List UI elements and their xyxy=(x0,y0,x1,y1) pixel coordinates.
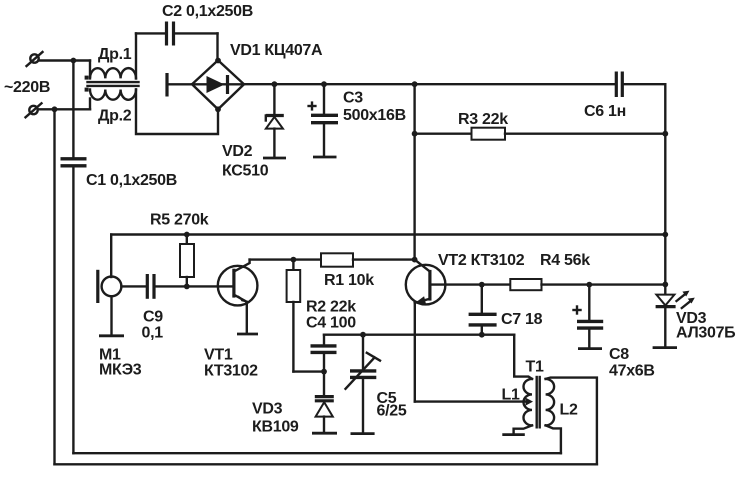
node rail VD2 xyxy=(272,81,278,87)
svg-text:C1 0,1x250В: C1 0,1x250В xyxy=(86,172,177,189)
varicap VD3 KV109 xyxy=(312,372,337,434)
capacitor C8 xyxy=(574,285,604,349)
svg-text:VD2: VD2 xyxy=(222,143,253,160)
phase dot Dr2 xyxy=(85,88,89,92)
node bottom input junction xyxy=(52,106,58,112)
T1 core xyxy=(537,377,540,427)
svg-text:C8: C8 xyxy=(609,346,629,363)
node base C7 xyxy=(479,282,485,288)
terminal bottom input xyxy=(26,103,42,117)
resistor R1 xyxy=(321,253,415,266)
node right R4 xyxy=(662,282,668,288)
node rail C3 xyxy=(321,81,327,87)
wire top input to junction xyxy=(39,59,90,61)
capacitor C1 xyxy=(61,159,87,453)
capacitor C6 xyxy=(616,72,665,98)
capacitor C3 xyxy=(309,84,338,157)
trimmer capacitor C5 xyxy=(346,335,381,434)
svg-text:C7 18: C7 18 xyxy=(501,311,543,328)
capacitor C2 xyxy=(136,22,218,46)
svg-text:КВ109: КВ109 xyxy=(252,419,299,436)
resistor R5 xyxy=(180,235,194,287)
svg-text:L2: L2 xyxy=(560,402,578,419)
svg-text:C4 100: C4 100 xyxy=(306,315,356,332)
svg-text:R1 10k: R1 10k xyxy=(324,272,374,289)
svg-text:47x6В: 47x6В xyxy=(609,363,655,380)
wire bias rail xyxy=(111,233,665,235)
transformer T1 winding L1 xyxy=(502,379,532,435)
node VT2 collector junction xyxy=(412,257,418,263)
wire outer bottom rail xyxy=(55,463,597,465)
resistor R4 xyxy=(482,279,666,290)
wire right vertical xyxy=(664,84,666,294)
wire junction down to C1 xyxy=(72,61,74,158)
svg-text:R3 22k: R3 22k xyxy=(458,111,508,128)
wire VT1 collector to R1 xyxy=(250,258,321,260)
tap arrow into L1 xyxy=(526,398,534,406)
wire C9 to VT1 base xyxy=(154,285,234,287)
node bridge AC bottom xyxy=(215,106,221,112)
svg-text:R5 270k: R5 270k xyxy=(150,212,209,229)
transformer core of chokes xyxy=(88,82,139,86)
transistor VT2 xyxy=(406,260,446,305)
transistor VT1 xyxy=(218,260,258,334)
svg-text:VD1 КЦ407А: VD1 КЦ407А xyxy=(230,42,323,59)
resistor R2 xyxy=(287,260,324,372)
choke Dr1 xyxy=(90,61,136,79)
wire outer left rail xyxy=(53,109,55,464)
svg-text:R2 22k: R2 22k xyxy=(306,299,356,316)
LED VD3 AL307B xyxy=(653,291,695,348)
transformer T1 winding L2 xyxy=(546,378,597,465)
microphone M1 xyxy=(98,270,124,336)
bridge rectifier VD1 xyxy=(192,60,244,109)
capacitor C4 xyxy=(311,335,337,372)
svg-text:C2 0,1x250В: C2 0,1x250В xyxy=(162,3,253,20)
node C4 VD3 junction xyxy=(321,369,327,375)
node bridge AC top xyxy=(215,58,221,64)
node C5 top xyxy=(360,332,366,338)
wire bridge minus output xyxy=(167,73,192,97)
svg-text:Др.2: Др.2 xyxy=(98,108,132,125)
svg-text:~220В: ~220В xyxy=(4,79,50,96)
svg-text:T1: T1 xyxy=(526,359,544,376)
choke Dr2 xyxy=(90,90,218,135)
capacitor C9 xyxy=(147,274,154,299)
svg-text:АЛ307Б: АЛ307Б xyxy=(676,325,735,342)
node right R3 xyxy=(662,131,668,137)
node R5 top xyxy=(184,232,190,238)
wire Dr1 to C2 xyxy=(135,33,137,78)
phase dot Dr1 xyxy=(85,76,89,80)
node top input junction xyxy=(71,58,77,64)
node feed R3 xyxy=(412,131,418,137)
wire C2 to bridge top xyxy=(216,33,218,59)
svg-text:R4 56k: R4 56k xyxy=(540,252,590,269)
node C7 bottom xyxy=(479,332,485,338)
terminal top input xyxy=(27,52,43,66)
node C8 top xyxy=(586,282,592,288)
svg-text:VT1: VT1 xyxy=(204,347,233,364)
svg-text:С6 1н: С6 1н xyxy=(584,103,626,120)
svg-text:МКЭ3: МКЭ3 xyxy=(99,362,142,379)
wire mic top lead xyxy=(110,235,112,278)
resistor R3 xyxy=(415,128,666,140)
wire tank corner to L1 xyxy=(514,335,532,379)
svg-text:КТ3102: КТ3102 xyxy=(204,363,258,380)
svg-text:КС510: КС510 xyxy=(222,163,269,180)
svg-text:C9: C9 xyxy=(143,309,163,326)
node right rail xyxy=(662,232,668,238)
node rail feed xyxy=(412,81,418,87)
svg-text:VT2 КТ3102: VT2 КТ3102 xyxy=(438,252,525,269)
svg-text:0,1: 0,1 xyxy=(142,325,164,342)
wire tank top xyxy=(324,334,514,336)
wire emitter to tap xyxy=(415,400,526,402)
svg-text:L1: L1 xyxy=(502,387,520,404)
wire bottom input xyxy=(38,108,90,110)
svg-text:Др.1: Др.1 xyxy=(98,46,132,63)
svg-text:500x16В: 500x16В xyxy=(343,107,406,124)
wire VT2 base xyxy=(430,283,482,285)
capacitor C7 xyxy=(469,285,497,335)
svg-text:6/25: 6/25 xyxy=(377,403,407,420)
zener diode VD2 xyxy=(263,84,286,158)
wire feed vertical to VT2 xyxy=(413,84,415,259)
svg-text:C3: C3 xyxy=(343,90,363,107)
wire inner bottom rail xyxy=(73,452,561,454)
wire VT2 emitter down xyxy=(414,303,416,402)
svg-text:VD3: VD3 xyxy=(252,401,283,418)
wire plus rail xyxy=(244,83,616,85)
wire mic to C9 xyxy=(121,285,146,287)
node R2 top xyxy=(291,257,297,263)
node R5 bottom xyxy=(184,284,190,290)
